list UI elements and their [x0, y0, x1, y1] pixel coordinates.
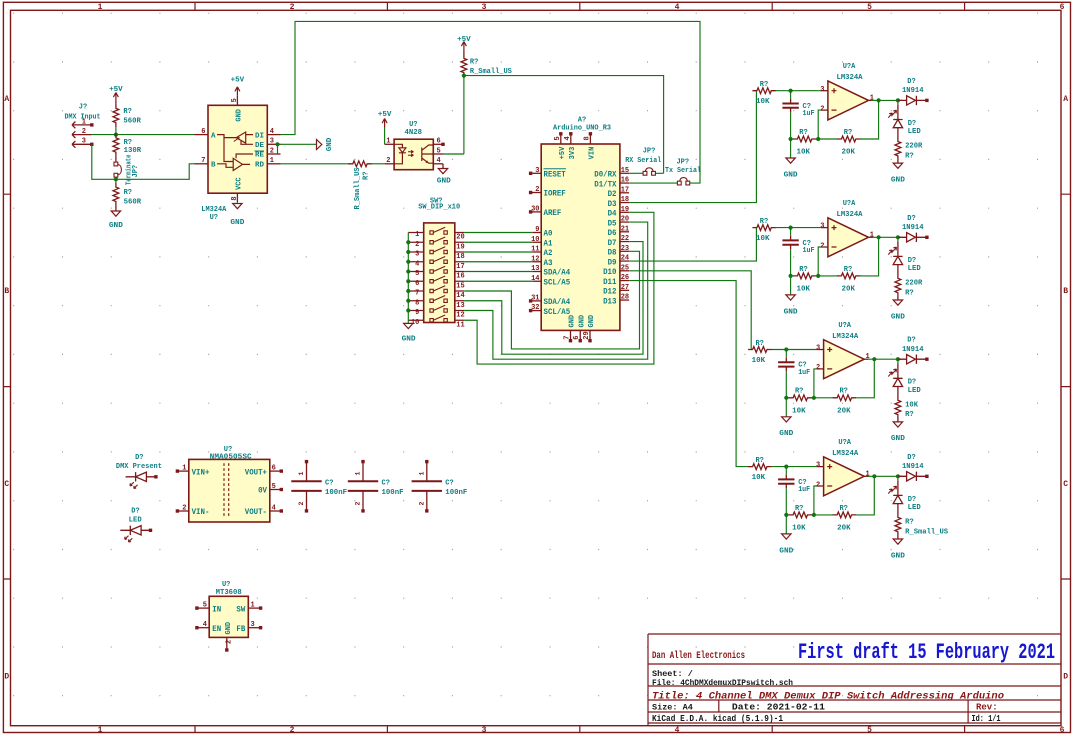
wire channel 3 input node — [771, 349, 817, 351]
ground at feedback channel 1 — [790, 139, 792, 158]
svg-text:SCL/A5: SCL/A5 — [544, 278, 571, 287]
svg-text:MT3608: MT3608 — [216, 589, 242, 597]
svg-text:J?: J? — [79, 104, 87, 112]
svg-text:D6: D6 — [608, 229, 617, 238]
svg-text:D: D — [4, 673, 9, 682]
diode open end channel 3 — [925, 358, 928, 361]
wire Arduino to channel 3 input — [629, 271, 752, 350]
wire pullup node — [443, 76, 664, 174]
wire DIP pin 19 to Arduino — [464, 241, 532, 243]
svg-text:DE: DE — [255, 142, 265, 150]
jumper JP? Terminate — [114, 162, 121, 177]
svg-text:D10: D10 — [603, 268, 617, 277]
junction at DMX line — [114, 133, 118, 137]
svg-text:C: C — [1063, 480, 1068, 489]
svg-text:31: 31 — [531, 294, 539, 302]
svg-text:3: 3 — [270, 138, 274, 146]
svg-text:2: 2 — [298, 502, 305, 506]
svg-text:5: 5 — [554, 136, 562, 140]
svg-text:SDA/A4: SDA/A4 — [544, 298, 571, 307]
svg-text:GND: GND — [230, 219, 245, 227]
diode D? 1N914 channel 1 — [898, 96, 927, 105]
svg-text:D?: D? — [135, 454, 143, 462]
svg-text:JP?: JP? — [643, 148, 656, 156]
wire DIP pin 11 to Arduino D4 — [464, 212, 654, 364]
svg-text:SDA/A4: SDA/A4 — [544, 269, 571, 278]
wire output node channel 3 — [867, 358, 902, 360]
svg-text:560R: 560R — [124, 198, 142, 206]
Arduino pin 18 D3 — [620, 202, 629, 204]
svg-text:1N914: 1N914 — [902, 224, 924, 232]
svg-text:GND: GND — [779, 430, 794, 438]
resistor R? 10K channel 4 input — [748, 464, 771, 470]
wire Arduino to channel 1 input — [629, 91, 756, 203]
power symbol +5V at 4N28 pin1 — [382, 119, 387, 128]
svg-text:U?A: U?A — [843, 200, 856, 208]
svg-text:10K: 10K — [756, 235, 770, 243]
svg-text:R?: R? — [905, 518, 914, 526]
Arduino pin 26 D11 — [620, 280, 629, 282]
wire DIP pin 16 to Arduino — [464, 271, 532, 273]
svg-text:LED: LED — [908, 265, 921, 273]
resistor R? 10K channel 1 input — [752, 88, 775, 94]
wire 20K to output channel 2 — [860, 237, 879, 276]
wire pin2 to feedback channel 4 — [814, 486, 817, 515]
svg-text:2: 2 — [820, 105, 824, 113]
IC U? MT3608 box — [209, 596, 248, 637]
svg-text:GND: GND — [891, 552, 906, 560]
svg-text:LM324A: LM324A — [837, 74, 864, 82]
power symbol +5V at U? pin5 — [235, 87, 240, 96]
wire channel 2 input node — [775, 227, 821, 229]
svg-text:D8: D8 — [608, 249, 617, 258]
junction output feedback channel 2 — [877, 235, 881, 239]
ground at led channel 3 — [897, 419, 899, 422]
junction channel 3 input — [784, 347, 788, 351]
wire D0/RX to jumper — [629, 172, 643, 174]
ground at led channel 4 — [897, 536, 899, 539]
IC U? NMA0505SC box — [189, 459, 270, 522]
wire DIP pin 18 to Arduino — [464, 251, 532, 253]
wire pin2 to feedback channel 1 — [818, 110, 821, 139]
svg-text:1: 1 — [182, 465, 186, 473]
svg-text:20K: 20K — [837, 408, 851, 416]
svg-text:3: 3 — [535, 167, 539, 175]
svg-text:6: 6 — [415, 280, 419, 288]
4N28 pin 5 — [433, 153, 443, 155]
svg-text:D13: D13 — [603, 297, 617, 306]
junction feedback mid channel 1 — [816, 138, 838, 140]
svg-text:20K: 20K — [842, 286, 856, 294]
svg-text:4N28: 4N28 — [405, 129, 423, 137]
svg-text:U?: U? — [409, 121, 417, 129]
svg-text:LM324A: LM324A — [832, 333, 859, 341]
svg-text:R?: R? — [844, 129, 852, 137]
svg-text:D?: D? — [907, 454, 915, 462]
svg-text:32: 32 — [531, 304, 539, 312]
SW? position 3/18 — [408, 251, 464, 253]
junction feedback left channel 2 — [789, 274, 793, 278]
svg-text:220R: 220R — [905, 143, 923, 151]
svg-text:GND: GND — [109, 222, 124, 230]
svg-text:11: 11 — [456, 321, 464, 329]
svg-text:1N914: 1N914 — [902, 346, 924, 354]
resistor R? 560R pullup — [113, 104, 119, 127]
capacitor C? 1uF channel 1 — [790, 91, 792, 99]
svg-text:18: 18 — [621, 196, 629, 204]
wire +5V to pin1 — [384, 128, 386, 145]
svg-text:B: B — [211, 162, 216, 170]
svg-text:D9: D9 — [608, 258, 617, 267]
Arduino pin 20 D5 — [620, 221, 629, 223]
junction DIP rail 6 — [406, 279, 410, 283]
ground at feedback channel 2 — [790, 276, 792, 295]
diode D? 1N914 channel 3 — [898, 355, 927, 364]
svg-text:NMA0505SC: NMA0505SC — [210, 453, 252, 461]
junction feedback mid channel 2 — [816, 275, 838, 277]
wire channel 4 input node — [771, 466, 817, 468]
svg-text:LM324A: LM324A — [201, 206, 227, 214]
svg-text:8: 8 — [583, 136, 591, 140]
svg-text:Date: 2021-02-11: Date: 2021-02-11 — [732, 703, 826, 713]
U? pin 8 VCC bottom — [236, 193, 238, 203]
junction channel 4 input — [784, 465, 788, 469]
resistor R? 20K feedback channel 4 — [833, 512, 856, 518]
svg-text:U?: U? — [222, 581, 230, 589]
svg-text:GND: GND — [402, 336, 417, 344]
SW? position 2/19 — [408, 241, 464, 243]
svg-text:2: 2 — [290, 726, 295, 735]
svg-text:5: 5 — [272, 483, 276, 491]
svg-text:+5V: +5V — [559, 146, 567, 159]
svg-text:3: 3 — [816, 462, 820, 470]
Arduino pin 28 D13 — [620, 299, 629, 301]
svg-text:220R: 220R — [905, 279, 923, 287]
svg-text:1: 1 — [415, 231, 419, 239]
svg-text:100nF: 100nF — [325, 489, 347, 497]
svg-text:2: 2 — [182, 505, 186, 513]
MT3608 pin 1 SW — [248, 607, 260, 609]
op-amp pin 1 output channel 1 — [869, 99, 874, 101]
SW? position 4/17 — [408, 261, 464, 263]
svg-text:3: 3 — [482, 726, 487, 735]
LED D? channel 2 — [897, 237, 899, 241]
svg-text:3: 3 — [482, 3, 487, 12]
svg-text:2: 2 — [418, 502, 425, 506]
wire R130 to jumper — [115, 157, 117, 162]
svg-text:3V3: 3V3 — [569, 147, 577, 160]
svg-text:4: 4 — [272, 505, 276, 513]
svg-text:17: 17 — [621, 186, 629, 194]
LED D? channel 1 — [897, 100, 899, 104]
svg-text:D?: D? — [908, 496, 916, 504]
wire TX jumper to DI (top rail) — [281, 21, 701, 183]
svg-text:2: 2 — [820, 242, 824, 250]
wire channel 1 input node — [775, 90, 821, 92]
optocoupler U? 4N28 box — [394, 139, 433, 170]
svg-text:17: 17 — [456, 263, 464, 271]
Arduino bottom pin 29 GND — [589, 330, 591, 340]
svg-text:GND: GND — [784, 308, 799, 316]
svg-text:A: A — [4, 95, 9, 104]
resistor R? 10K to gnd channel 3 — [786, 397, 789, 399]
svg-text:Title: 4 Channel DMX Demux DIP: Title: 4 Channel DMX Demux DIP Switch Ad… — [652, 690, 1004, 702]
svg-text:R?: R? — [799, 266, 807, 274]
Arduino pin 22 D7 — [620, 241, 629, 243]
junction DIP rail 5 — [406, 269, 410, 273]
svg-text:EN: EN — [212, 625, 221, 634]
Arduino pin 16 D1/TX — [620, 182, 629, 184]
connector J? pin 3 open end — [90, 143, 93, 146]
diode open end channel 2 — [925, 236, 928, 239]
svg-text:20: 20 — [456, 234, 464, 242]
svg-text:15: 15 — [456, 282, 464, 290]
MT3608 pin 3 FB — [248, 627, 260, 629]
svg-text:1: 1 — [270, 157, 274, 165]
svg-text:1: 1 — [386, 138, 390, 146]
svg-text:4: 4 — [675, 3, 680, 12]
svg-text:28: 28 — [621, 294, 629, 302]
ground at led channel 1 — [897, 160, 899, 163]
svg-text:5: 5 — [867, 3, 872, 12]
wire DIP pin 17 to Arduino — [464, 261, 532, 263]
svg-text:1uF: 1uF — [803, 110, 815, 118]
capacitor C? 100nF #2 — [362, 462, 364, 511]
svg-text:4: 4 — [415, 260, 419, 268]
svg-text:20K: 20K — [837, 525, 851, 533]
svg-text:2: 2 — [415, 241, 419, 249]
svg-text:9: 9 — [415, 309, 419, 317]
resistor R? R_Small_US pullup — [463, 51, 465, 55]
svg-text:LM324A: LM324A — [832, 450, 859, 458]
SW? position 7/14 — [408, 290, 464, 292]
svg-text:10K: 10K — [792, 525, 806, 533]
svg-text:Rev:: Rev: — [976, 703, 998, 713]
svg-text:D?: D? — [907, 78, 915, 86]
resistor R? led channel 4 — [897, 504, 899, 513]
svg-text:16: 16 — [456, 273, 464, 281]
Arduino top pin 8 VIN — [589, 135, 591, 144]
svg-text:U?: U? — [210, 214, 218, 222]
junction DE RE tie — [275, 142, 279, 146]
ground at led channel 2 — [897, 297, 899, 300]
wire DE/RE to GND label — [278, 144, 317, 154]
svg-text:GND: GND — [588, 315, 596, 328]
svg-text:U?A: U?A — [843, 63, 856, 71]
4N28 internal emission arrows — [408, 150, 414, 156]
resistor R? 10K to gnd channel 1 — [791, 138, 794, 140]
SW? position 5/16 — [408, 271, 464, 273]
capacitor C? 1uF channel 2 — [790, 228, 792, 236]
svg-text:10K: 10K — [792, 408, 806, 416]
svg-text:A1: A1 — [544, 239, 553, 248]
svg-text:13: 13 — [456, 302, 464, 310]
Arduino top pin 5 +5V — [560, 135, 562, 144]
svg-text:VOUT+: VOUT+ — [245, 468, 267, 477]
svg-text:16: 16 — [621, 177, 629, 185]
connector J? pin 2 — [72, 131, 92, 138]
svg-text:5: 5 — [415, 270, 419, 278]
op-amp pin 1 output channel 4 — [864, 475, 869, 477]
svg-text:GND: GND — [779, 547, 794, 555]
U? internal driver triangle — [236, 132, 245, 143]
wire cap to feedback row channel 4 — [785, 488, 787, 515]
Arduino pin 24 D9 — [620, 260, 629, 262]
svg-text:R?: R? — [905, 411, 914, 419]
SW? position 10/11 — [408, 319, 464, 321]
svg-text:IN: IN — [212, 605, 221, 614]
svg-text:20: 20 — [621, 216, 629, 224]
wire +5V to R560 — [115, 102, 117, 104]
svg-text:VIN+: VIN+ — [192, 468, 210, 477]
Arduino pin 11 A2 — [532, 251, 541, 253]
capacitor C? 1uF channel 3 — [785, 350, 787, 358]
svg-text:A3: A3 — [544, 259, 553, 268]
svg-text:D?: D? — [908, 257, 916, 265]
svg-text:1: 1 — [82, 118, 86, 126]
svg-text:10K: 10K — [756, 98, 770, 106]
svg-text:D1/TX: D1/TX — [594, 180, 616, 189]
svg-text:D7: D7 — [608, 239, 617, 248]
svg-text:D11: D11 — [603, 278, 617, 287]
svg-text:1uF: 1uF — [803, 247, 815, 255]
svg-text:3: 3 — [820, 86, 824, 94]
svg-text:R?: R? — [760, 81, 768, 89]
svg-text:23: 23 — [621, 245, 629, 253]
Arduino pin 13 SDA/A4 — [532, 271, 541, 273]
svg-text:R?: R? — [755, 457, 763, 465]
op-amp pin 3 channel 4 — [817, 466, 824, 468]
svg-text:A?: A? — [578, 117, 586, 125]
junction feedback left channel 3 — [784, 396, 788, 400]
power symbol +5V at R560 top — [113, 93, 118, 102]
svg-text:R_Small_US: R_Small_US — [905, 528, 948, 536]
NMA0505SC isolation dashes — [224, 463, 229, 518]
svg-text:25: 25 — [621, 264, 629, 272]
svg-text:VCC: VCC — [236, 177, 244, 190]
wire R560 to node — [115, 127, 117, 134]
svg-text:1N914: 1N914 — [902, 463, 924, 471]
resistor R? R_Small_US series — [348, 161, 371, 167]
svg-text:3: 3 — [82, 138, 86, 146]
svg-text:IOREF: IOREF — [544, 190, 566, 199]
svg-text:4: 4 — [270, 128, 274, 136]
wire DIP pin 15 to Arduino — [464, 280, 532, 282]
op-amp U?A LM324A channel 1 — [828, 81, 869, 120]
svg-text:5: 5 — [437, 147, 441, 155]
svg-text:1: 1 — [870, 94, 874, 102]
svg-text:+5V: +5V — [109, 86, 123, 94]
svg-text:27: 27 — [621, 284, 629, 292]
junction output led channel 1 — [896, 98, 900, 102]
wire DIP pin 20 to Arduino — [464, 232, 532, 234]
Arduino pin 15 D0/RX — [620, 172, 629, 174]
wire jumper to rail — [115, 177, 117, 179]
op-amp pin 3 channel 1 — [821, 90, 828, 92]
svg-text:7: 7 — [415, 290, 419, 298]
wire DIP pin 14 to Arduino D8 — [464, 251, 639, 349]
svg-text:3: 3 — [415, 251, 419, 259]
svg-text:LED: LED — [908, 387, 921, 395]
svg-text:8: 8 — [231, 196, 239, 200]
IC U? LM324A box — [208, 105, 267, 193]
svg-text:R?: R? — [839, 505, 847, 513]
svg-text:2: 2 — [226, 640, 234, 644]
LED D? channel 4 — [897, 476, 899, 480]
svg-text:1: 1 — [870, 231, 874, 239]
svg-text:GND: GND — [578, 315, 586, 328]
svg-text:U?A: U?A — [838, 322, 851, 330]
svg-text:D: D — [1063, 673, 1068, 682]
NMA0505SC pin 4 VOUT- — [270, 510, 281, 512]
svg-text:1: 1 — [866, 470, 870, 478]
U? pin 7 B — [195, 163, 209, 165]
svg-text:Size: A4: Size: A4 — [652, 703, 693, 713]
4N28 pin 6 — [433, 143, 443, 145]
junction output feedback channel 3 — [872, 357, 876, 361]
svg-text:D3: D3 — [608, 200, 617, 209]
Arduino top pin 4 3V3 — [570, 135, 572, 144]
Arduino pin 31 SDA/A4 — [532, 300, 542, 302]
svg-text:2: 2 — [816, 364, 820, 372]
U? pin 1 RD — [267, 163, 280, 165]
diode open end channel 1 — [925, 99, 928, 102]
svg-text:1: 1 — [298, 472, 305, 476]
svg-text:R?: R? — [905, 289, 914, 297]
svg-text:JP?: JP? — [132, 165, 140, 178]
junction DIP rail 2 — [406, 240, 410, 244]
svg-text:DMX Present: DMX Present — [116, 463, 162, 471]
svg-text:R?: R? — [795, 505, 803, 513]
svg-text:6: 6 — [437, 138, 441, 146]
svg-text:R_Small_US: R_Small_US — [470, 68, 512, 76]
resistor R? led channel 1 — [897, 128, 899, 138]
svg-text:4: 4 — [203, 621, 207, 629]
junction feedback left channel 1 — [789, 137, 793, 141]
svg-text:9: 9 — [535, 226, 539, 234]
svg-text:JP?: JP? — [676, 158, 689, 166]
svg-text:R?: R? — [839, 388, 847, 396]
svg-text:GND: GND — [784, 171, 799, 179]
svg-text:8: 8 — [415, 299, 419, 307]
svg-text:B: B — [1063, 287, 1068, 296]
svg-text:R?: R? — [755, 340, 763, 348]
svg-text:6: 6 — [201, 128, 205, 136]
svg-text:RESET: RESET — [544, 171, 566, 180]
svg-text:24: 24 — [621, 255, 629, 263]
Arduino pin 17 D2 — [620, 192, 629, 194]
svg-text:13: 13 — [531, 265, 539, 273]
svg-text:FB: FB — [236, 625, 245, 634]
Arduino pin 30 AREF — [532, 211, 542, 213]
svg-text:21: 21 — [621, 225, 629, 233]
resistor R? 10K channel 2 input — [752, 225, 775, 231]
ground at 4N28 pin4 — [442, 164, 444, 169]
svg-text:GND: GND — [225, 622, 233, 635]
svg-text:1: 1 — [251, 602, 255, 610]
svg-text:GND: GND — [891, 435, 906, 443]
svg-text:2: 2 — [816, 481, 820, 489]
wire 20K to output channel 1 — [860, 100, 879, 139]
resistor R? 560R to gnd — [115, 179, 117, 183]
svg-text:GND: GND — [326, 137, 334, 151]
wire output node channel 2 — [871, 236, 902, 238]
DIP switch common rail — [407, 233, 409, 321]
svg-text:10K: 10K — [797, 149, 811, 157]
Arduino pin 14 SCL/A5 — [532, 280, 541, 282]
svg-text:+5V: +5V — [378, 111, 392, 119]
SW? position 6/15 — [408, 280, 464, 282]
